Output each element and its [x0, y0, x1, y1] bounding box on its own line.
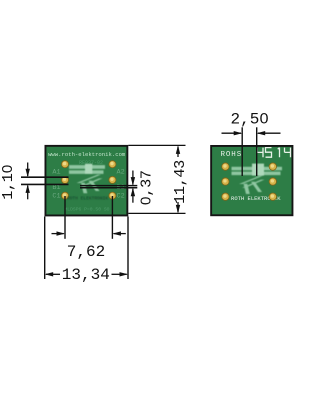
dimension 2,50 right arrow — [257, 131, 281, 135]
pad row3 right (rear) — [269, 193, 276, 200]
svg-text:A2: A2 — [117, 168, 125, 176]
dimension 0,37 extension line lower — [80, 187, 137, 189]
dimension 2,50 left extension line — [241, 127, 243, 176]
dimension 13,34 right extension line — [127, 217, 129, 280]
dimension 13,34 left arrow segment — [45, 272, 60, 276]
dimension 11,43 bottom arrow — [176, 202, 180, 213]
dimension 2,50 left arrow — [222, 131, 243, 135]
svg-text:C1: C1 — [52, 192, 60, 200]
PCB board rear view (right) — [210, 145, 293, 216]
pad A1 — [61, 161, 68, 168]
silkscreen date code 45 14 — [257, 148, 291, 158]
svg-text:A1: A1 — [52, 168, 60, 176]
dimension 0,37 extension line upper — [80, 185, 137, 187]
pad row2 left (rear) — [222, 178, 229, 185]
svg-text:11,43: 11,43 — [171, 160, 189, 204]
logo watermark left board — [69, 164, 105, 194]
pad A2 — [109, 161, 116, 168]
dimension 1,10 extension line upper — [21, 176, 69, 178]
svg-text:13,34: 13,34 — [62, 266, 110, 284]
dimension 13,34 left extension line — [44, 217, 46, 280]
dimension 1,10 lower arrow — [26, 184, 30, 199]
dimension 7,62 right extension line — [111, 196, 113, 239]
pad C2 — [109, 192, 116, 199]
dimension 0,37 upper arrow — [131, 171, 135, 186]
dimension 11,43 top arrow — [176, 145, 180, 157]
svg-text:ROHS: ROHS — [221, 151, 243, 159]
pad C1 — [61, 192, 68, 199]
dimension 11,43 bottom extension line — [128, 212, 185, 214]
svg-text:ROTH ELEKTRONIK: ROTH ELEKTRONIK — [67, 195, 109, 201]
dimension 11,43 top extension line — [128, 144, 185, 146]
dimension 0,37 lower arrow — [131, 188, 135, 203]
dimension 13,34 right arrow segment — [112, 272, 129, 276]
dimension 7,62 left arrow — [52, 231, 66, 235]
svg-text:C2: C2 — [117, 192, 125, 200]
svg-text:www.roth-elektronik.com: www.roth-elektronik.com — [48, 151, 126, 158]
zero-glyph dot masks (plotter-style zeros) — [5, 117, 266, 203]
dimension 2,50 right extension line — [256, 127, 258, 176]
svg-text:7,62: 7,62 — [67, 243, 105, 261]
pad row3 left (rear) — [222, 193, 229, 200]
pad B1 — [61, 176, 68, 183]
dimension 1,10 extension line lower — [21, 183, 69, 185]
pad B2 — [109, 176, 116, 183]
pad row1 left (rear) — [222, 163, 229, 170]
PCB board front view (left) — [45, 145, 129, 217]
dimension 7,62 right arrow — [112, 231, 125, 235]
logo watermark right board — [232, 164, 283, 194]
dimension 7,62 left extension line — [64, 196, 66, 239]
svg-text:1,10: 1,10 — [0, 164, 17, 199]
pad row1 right (rear) — [269, 163, 276, 170]
dimension 1,10 upper arrow — [26, 163, 30, 178]
svg-text:MLDSP6 P=0.50 SO: MLDSP6 P=0.50 SO — [64, 206, 109, 212]
pad row2 right (rear) — [269, 178, 276, 185]
